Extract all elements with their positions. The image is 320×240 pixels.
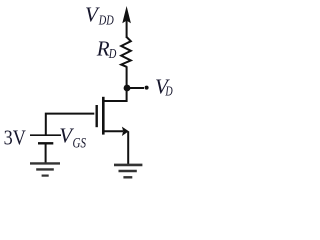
transistor Q1 source lead with arrow <box>103 127 129 136</box>
wire node to VD terminal <box>127 87 144 89</box>
transistor Q1 channel bar <box>102 97 105 135</box>
svg-text:3V: 3V <box>4 128 26 150</box>
wire drain rail <box>103 66 126 101</box>
battery VGS long plate <box>30 134 61 136</box>
svg-text:D: D <box>165 83 173 98</box>
transistor Q1 gate bar <box>95 105 97 127</box>
label VDD <box>85 3 114 28</box>
ground right <box>114 165 142 177</box>
label VGS <box>59 123 86 151</box>
svg-text:DD: DD <box>98 13 114 28</box>
svg-text:GS: GS <box>73 135 87 151</box>
svg-text:V: V <box>85 3 100 27</box>
wire source to ground <box>127 131 129 164</box>
battery VGS short plate <box>38 142 53 144</box>
wire battery to ground <box>45 143 47 162</box>
resistor RD <box>121 37 131 67</box>
svg-text:R: R <box>96 37 110 61</box>
node VD junction dot <box>124 85 131 92</box>
label VD <box>155 75 173 99</box>
power arrow VDD <box>122 6 131 38</box>
ground left <box>30 163 60 175</box>
terminal dot VD <box>145 86 149 90</box>
svg-text:D: D <box>108 46 117 61</box>
wire gate lead from battery <box>46 114 95 135</box>
label RD <box>96 37 117 62</box>
